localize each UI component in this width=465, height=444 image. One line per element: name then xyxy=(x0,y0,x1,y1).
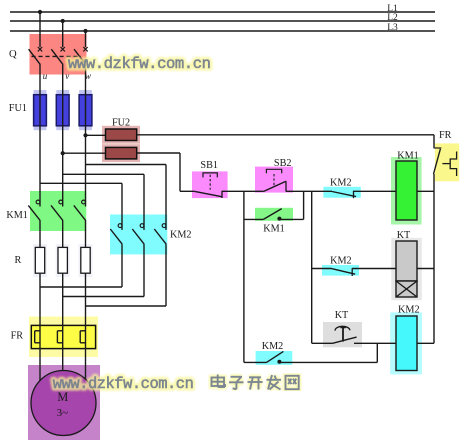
svg-text:KM1: KM1 xyxy=(6,210,28,221)
svg-text:www.dzkfw.com.cn: www.dzkfw.com.cn xyxy=(53,375,194,393)
svg-text:FU2: FU2 xyxy=(112,117,130,128)
svg-text:KM2: KM2 xyxy=(330,177,352,188)
svg-text:L3: L3 xyxy=(387,23,398,33)
svg-text:SB2: SB2 xyxy=(274,158,292,169)
svg-text:KM1: KM1 xyxy=(263,223,285,234)
svg-text:FR: FR xyxy=(11,331,24,342)
svg-text:FU1: FU1 xyxy=(9,103,27,114)
svg-text:u: u xyxy=(43,71,48,81)
svg-text:KT: KT xyxy=(335,310,349,321)
svg-text:SB1: SB1 xyxy=(200,160,218,171)
svg-text:3~: 3~ xyxy=(57,407,69,419)
svg-text:www.dzkfw.com.cn: www.dzkfw.com.cn xyxy=(68,55,211,73)
svg-text:KM2: KM2 xyxy=(262,341,284,352)
svg-text:KM2: KM2 xyxy=(170,229,192,240)
svg-text:KM2: KM2 xyxy=(398,304,420,315)
svg-text:KT: KT xyxy=(397,230,411,241)
svg-text:L2: L2 xyxy=(387,13,398,23)
svg-text:KM2: KM2 xyxy=(330,256,352,267)
svg-text:KM1: KM1 xyxy=(397,150,419,161)
svg-text:R: R xyxy=(15,255,22,266)
svg-text:FR: FR xyxy=(439,130,452,141)
svg-text:Q: Q xyxy=(9,49,17,60)
